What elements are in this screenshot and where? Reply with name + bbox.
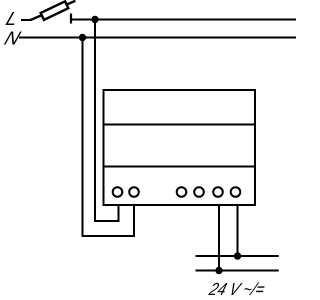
node N junction <box>79 34 86 41</box>
label N <box>2 28 24 49</box>
fuse-switch F1 blade <box>31 1 76 20</box>
wire N bus <box>19 37 296 39</box>
svg-text:L: L <box>3 9 21 30</box>
label L <box>3 9 21 30</box>
terminal 2 <box>129 187 139 197</box>
wire 24V bus lower <box>196 270 279 272</box>
wire terminal 6 drop <box>237 205 239 256</box>
wire L bus <box>71 19 296 21</box>
device U1 divider 2 <box>104 166 256 168</box>
node terminal 5 junction on lower bus <box>215 267 222 274</box>
terminal 1 <box>113 187 123 197</box>
fuse-switch F1 body <box>41 1 69 19</box>
wire L lead <box>21 19 32 21</box>
device U1 outline <box>104 90 256 205</box>
terminal 6 <box>231 187 241 197</box>
node terminal 6 junction on upper bus <box>234 252 241 259</box>
label 24 V ~/= <box>206 280 267 299</box>
terminal 3 <box>177 187 187 197</box>
svg-text:24 V ~/=: 24 V ~/= <box>206 280 267 299</box>
device U1 divider 1 <box>104 124 256 126</box>
wire terminal 5 drop <box>218 205 220 271</box>
wire N drop to terminal 2 <box>83 38 135 237</box>
node L junction <box>91 16 98 23</box>
terminal 4 <box>194 187 204 197</box>
fuse-switch F1 fixed contact <box>70 14 72 24</box>
terminal 5 <box>213 187 223 197</box>
wire 24V bus upper <box>196 255 279 257</box>
wire L drop to terminal 1 <box>95 20 119 222</box>
